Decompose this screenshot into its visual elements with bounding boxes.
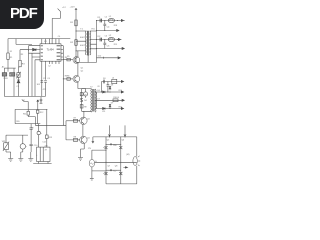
svg-text:C5: C5: [107, 45, 111, 47]
svg-text:R2: R2: [70, 42, 74, 44]
svg-text:IC1: IC1: [44, 41, 47, 43]
svg-text:R7: R7: [74, 117, 76, 119]
svg-text:D9: D9: [111, 103, 113, 105]
svg-text:4: 4: [36, 155, 37, 157]
svg-text:Q3: Q3: [87, 119, 90, 121]
svg-text:R17: R17: [113, 171, 116, 173]
svg-text:4007: 4007: [80, 37, 86, 39]
svg-text:C8: C8: [84, 94, 86, 96]
svg-text:C3: C3: [43, 78, 45, 80]
svg-text:R11: R11: [23, 113, 26, 115]
svg-text:L1: L1: [109, 16, 112, 18]
svg-text:XT: XT: [45, 150, 48, 152]
svg-text:R16: R16: [113, 145, 116, 147]
svg-text:Q7: Q7: [108, 165, 111, 167]
svg-text:Q5: Q5: [107, 140, 110, 142]
svg-text:TL494: TL494: [47, 48, 55, 51]
svg-text:R15: R15: [119, 107, 122, 109]
svg-text:C0: C0: [58, 36, 60, 38]
svg-text:R5: R5: [67, 56, 69, 58]
svg-text:VR1: VR1: [2, 141, 6, 143]
svg-text:D8: D8: [111, 85, 113, 87]
svg-text:Q2: Q2: [81, 70, 84, 72]
svg-text:C4: C4: [105, 17, 107, 19]
svg-text:R18: R18: [114, 25, 117, 27]
svg-text:D10: D10: [98, 56, 101, 58]
svg-text:C10: C10: [34, 145, 37, 147]
svg-text:C2: C2: [48, 66, 50, 68]
svg-text:C11: C11: [102, 111, 105, 113]
svg-text:D2: D2: [98, 36, 102, 38]
svg-text:D6: D6: [97, 90, 99, 92]
svg-text:Q1: Q1: [81, 67, 84, 69]
svg-text:+: +: [41, 133, 43, 135]
svg-text:C12: C12: [42, 142, 45, 144]
svg-text:R14: R14: [119, 90, 122, 92]
svg-text:4007: 4007: [80, 45, 86, 47]
svg-text:C4: C4: [107, 26, 111, 28]
svg-text:C8: C8: [97, 86, 99, 88]
svg-text:C1: C1: [16, 86, 18, 88]
svg-text:Vcc: Vcc: [22, 100, 25, 102]
svg-text:(M): (M): [126, 154, 129, 156]
svg-text:Q4: Q4: [87, 138, 90, 140]
svg-text:R6: R6: [67, 76, 69, 78]
svg-text:103: 103: [37, 84, 40, 86]
svg-text:R9: R9: [84, 106, 86, 108]
svg-text:R8: R8: [74, 137, 76, 139]
svg-text:C6: C6: [105, 36, 107, 38]
svg-text:R19: R19: [114, 44, 117, 46]
svg-text:R3: R3: [21, 54, 23, 56]
svg-text:+: +: [26, 146, 28, 148]
svg-text:R1: R1: [70, 22, 74, 24]
svg-text:L3: L3: [112, 77, 114, 79]
svg-text:C9: C9: [31, 128, 33, 130]
svg-text:TR1: TR1: [91, 29, 94, 31]
svg-text:Q8: Q8: [115, 165, 118, 167]
svg-text:K1: K1: [10, 51, 12, 53]
svg-text:R13: R13: [49, 137, 52, 139]
svg-text:D1: D1: [98, 17, 102, 19]
svg-text:F1: F1: [10, 57, 13, 59]
svg-text:R12: R12: [40, 112, 43, 114]
svg-text:L4: L4: [117, 97, 119, 99]
svg-text:D7: D7: [97, 98, 99, 100]
svg-text:+12: +12: [62, 7, 66, 9]
svg-text:D4: D4: [84, 100, 86, 102]
svg-text:R20: R20: [16, 121, 19, 123]
svg-text:T1: T1: [80, 29, 83, 31]
svg-text:220V: 220V: [3, 78, 8, 80]
svg-text:T2: T2: [90, 87, 93, 89]
svg-text:12V: 12V: [88, 148, 92, 150]
svg-text:L2: L2: [109, 35, 112, 37]
svg-text:C4: C4: [47, 78, 49, 80]
svg-text:R4: R4: [65, 57, 67, 59]
svg-text:R3: R3: [22, 64, 26, 66]
svg-text:R6: R6: [65, 76, 67, 78]
svg-text:Q6: Q6: [122, 140, 125, 142]
svg-text:+12V: +12V: [70, 7, 76, 9]
svg-text:220: 220: [45, 145, 48, 147]
svg-text:D3: D3: [103, 78, 105, 80]
svg-text:472: 472: [43, 89, 46, 91]
